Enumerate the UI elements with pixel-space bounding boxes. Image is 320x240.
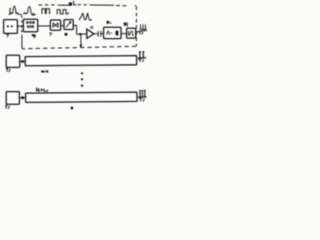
output wire through dashed edge	[136, 30, 147, 32]
row 2 comb icon	[138, 52, 146, 58]
label under box 2	[32, 34, 36, 38]
box 1 (trigger generator)	[4, 20, 18, 34]
wire box2 to box3	[38, 25, 51, 27]
wire box3 to box4	[61, 25, 64, 27]
pulse waveform icon 2	[24, 6, 36, 15]
row 3 delay line bar	[26, 92, 137, 102]
pulse-train comb icon top right	[140, 24, 147, 29]
pulse waveform icon 1	[9, 6, 22, 15]
label under output wire	[139, 32, 144, 35]
dashed enclosure top edge	[39, 5, 137, 6]
box 6 inner marks	[129, 31, 134, 36]
wire amp to coupling caps	[94, 33, 98, 35]
box 5 (gate / divider)	[104, 27, 121, 38]
label under row 3 comb	[139, 98, 144, 101]
row 3 comb icon	[138, 90, 147, 97]
box 5 inner marks	[107, 31, 119, 36]
box 1 text marks	[7, 25, 13, 27]
row 2 feed box	[6, 55, 20, 67]
box 3 inner icon	[53, 23, 58, 28]
sine waveform icon	[79, 13, 92, 20]
box 3 (modulator)	[50, 20, 60, 30]
vertical ellipsis	[81, 72, 83, 86]
box 4 (variable attenuator)	[64, 20, 73, 30]
label above box 6	[124, 22, 128, 26]
down arrow to delay lines	[80, 34, 83, 48]
label under row 2 comb	[138, 59, 143, 62]
box 6 (output stage)	[127, 28, 136, 38]
coupling capacitor ticks	[98, 31, 101, 37]
label N-th above row 3 bar	[37, 88, 48, 92]
row 2 junction dot and wire	[20, 60, 26, 63]
dashed enclosure left edge	[21, 15, 23, 48]
label under box 4	[65, 33, 68, 36]
square-wave icon 2	[57, 10, 68, 14]
box 4 diagonal arrow	[66, 22, 71, 28]
box 2 text marks	[26, 21, 34, 28]
wire with arrow into amplifier	[77, 33, 87, 36]
square-wave icon 1	[41, 9, 50, 14]
label under box 3	[49, 33, 52, 36]
label under box 1	[6, 35, 9, 38]
row 2 delay line bar	[25, 56, 136, 66]
label above box 5	[107, 21, 112, 24]
wire caps to box 5	[101, 33, 103, 35]
dashed enclosure right edge	[135, 7, 137, 47]
wire box1 to box2	[17, 25, 23, 27]
box 2 (pulse generator)	[23, 19, 37, 32]
label under row2 box	[6, 69, 10, 72]
row 3 feed box	[6, 92, 19, 105]
label under row3 box	[5, 106, 10, 109]
row 3 junction dot and wire	[19, 96, 25, 99]
wire box4 output, down to amp row	[73, 25, 76, 34]
label under row 2 bar	[41, 70, 48, 72]
dashed enclosure bottom edge	[22, 46, 136, 49]
amplifier N (triangle)	[87, 29, 94, 38]
wire box5 to box6	[121, 33, 127, 35]
label 16 black square with hook	[69, 1, 77, 6]
small mark a under row 3 bar	[71, 107, 73, 110]
